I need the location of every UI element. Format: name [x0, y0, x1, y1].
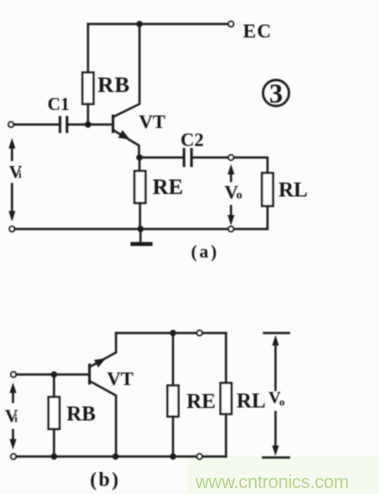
svg-text:VT: VT [107, 369, 134, 390]
svg-text:(a): (a) [191, 242, 219, 263]
svg-text:RB: RB [98, 72, 131, 97]
svg-text:3: 3 [269, 79, 283, 109]
svg-text:Vi: Vi [5, 406, 18, 426]
svg-text:RL: RL [279, 178, 308, 202]
svg-text:RL: RL [237, 389, 266, 413]
svg-text:Vi: Vi [9, 162, 22, 182]
svg-text:VT: VT [139, 112, 166, 133]
svg-text:RE: RE [153, 174, 184, 199]
svg-text:EC: EC [243, 22, 272, 43]
svg-text:RE: RE [187, 389, 216, 413]
svg-text:www.cntronics.com: www.cntronics.com [195, 471, 349, 492]
svg-text:RB: RB [67, 402, 96, 426]
svg-text:C1: C1 [48, 94, 70, 114]
svg-text:C2: C2 [181, 130, 204, 151]
svg-text:(b): (b) [90, 469, 120, 491]
